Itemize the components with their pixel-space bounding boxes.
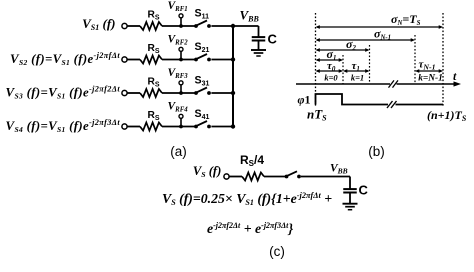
svg-text:VS1 (f): VS1 (f) — [82, 16, 115, 32]
svg-text:τN-1: τN-1 — [419, 59, 436, 72]
svg-text:RS/4: RS/4 — [240, 153, 264, 168]
svg-text:S21: S21 — [195, 41, 210, 54]
svg-text:C: C — [268, 32, 278, 47]
svg-text:k=0: k=0 — [324, 72, 338, 82]
svg-text:VS (f)=0.25× VS1 (f){1+e-j2πfΔ: VS (f)=0.25× VS1 (f){1+e-j2πfΔt + — [162, 191, 332, 207]
svg-text:VS3 (f)=VS1 (f)e-j2πf2Δt: VS3 (f)=VS1 (f)e-j2πf2Δt — [6, 85, 121, 101]
svg-text:k=N-1: k=N-1 — [418, 73, 443, 83]
svg-text:t: t — [453, 69, 457, 83]
svg-text:τ0: τ0 — [327, 60, 336, 73]
svg-text:VS4 (f)=VS1 (f)e-j2πf3Δt: VS4 (f)=VS1 (f)e-j2πf3Δt — [6, 118, 121, 134]
svg-text:nTS: nTS — [307, 106, 327, 122]
svg-text:VS (f): VS (f) — [193, 164, 221, 179]
svg-text:σN=TS: σN=TS — [391, 12, 421, 27]
svg-text:(a): (a) — [170, 144, 187, 159]
svg-text:S41: S41 — [195, 108, 210, 121]
svg-text:k=1: k=1 — [351, 72, 364, 82]
svg-text:VBB: VBB — [330, 163, 348, 176]
svg-text:σN-1: σN-1 — [374, 26, 391, 41]
svg-text:τ1: τ1 — [352, 60, 360, 73]
svg-text:(c): (c) — [269, 244, 285, 259]
svg-text:VRF2: VRF2 — [168, 33, 189, 46]
svg-text:RS: RS — [148, 9, 160, 21]
svg-text:VS2 (f)=VS1 (f)e-j2πfΔt: VS2 (f)=VS1 (f)e-j2πfΔt — [10, 51, 120, 67]
svg-text:VRF4: VRF4 — [168, 100, 189, 113]
svg-text:VRF3: VRF3 — [168, 67, 189, 80]
svg-text:RS: RS — [148, 110, 160, 122]
svg-text:S31: S31 — [195, 75, 210, 88]
svg-text:VBB: VBB — [240, 8, 260, 24]
svg-text:S11: S11 — [195, 8, 210, 21]
svg-text:(b): (b) — [368, 144, 385, 159]
svg-text:e-j2πf2Δt + e-j2πf3Δt}: e-j2πf2Δt + e-j2πf3Δt} — [207, 221, 293, 236]
svg-text:C: C — [359, 183, 369, 198]
svg-text:(n+1)TS: (n+1)TS — [427, 108, 467, 123]
svg-text:φ1: φ1 — [298, 93, 311, 107]
svg-text:RS: RS — [148, 43, 160, 55]
svg-text:σ2: σ2 — [346, 37, 356, 52]
svg-text:VRF1: VRF1 — [168, 0, 188, 13]
svg-text:RS: RS — [148, 76, 160, 88]
